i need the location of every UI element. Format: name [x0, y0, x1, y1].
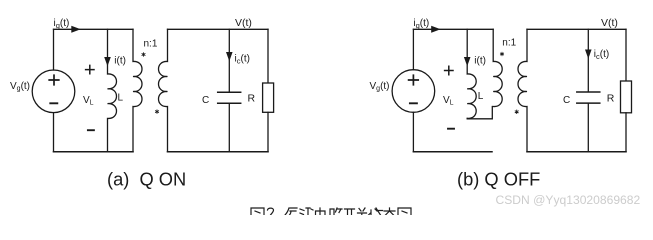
- arrow ic a: [226, 52, 233, 61]
- svg-text:R: R: [248, 93, 256, 105]
- arrow i(t) b: [464, 57, 471, 66]
- svg-text:(a) Q ON: (a) Q ON: [107, 169, 186, 190]
- wire bottom rail secondary b: [527, 151, 626, 153]
- transformer primary b: [493, 29, 502, 106]
- inductor L coil b: [467, 62, 476, 118]
- char tu2 top: [398, 208, 411, 215]
- wire top rail b: [413, 28, 493, 30]
- transformer secondary b: [518, 29, 527, 151]
- plus label VL a: [86, 65, 94, 73]
- wire top rail secondary b: [527, 28, 626, 30]
- wire bottom rail secondary a: [168, 151, 269, 153]
- svg-text:i(t): i(t): [114, 56, 126, 67]
- svg-text:R: R: [607, 93, 615, 105]
- char kai top: [345, 209, 355, 215]
- svg-text:n:1: n:1: [144, 39, 158, 50]
- wire L branch top a: [107, 29, 109, 62]
- char ji top: [300, 208, 313, 215]
- wire L branch top b: [466, 29, 468, 62]
- char tai top: [384, 208, 395, 215]
- dot marker secondary b: [515, 110, 518, 113]
- svg-text:ig(t): ig(t): [413, 18, 429, 30]
- svg-text:i(t): i(t): [474, 56, 486, 67]
- wire top rail a: [54, 28, 134, 30]
- wire top rail secondary a: [168, 28, 269, 30]
- svg-text:n:1: n:1: [502, 38, 516, 49]
- char guan top: [358, 208, 367, 215]
- svg-text:ig(t): ig(t): [54, 18, 70, 30]
- capacitor C a plates: [218, 92, 241, 103]
- svg-text:VL: VL: [443, 95, 454, 107]
- svg-text:CSDN @Yyq13020869682: CSDN @Yyq13020869682: [496, 193, 641, 207]
- source plus sign b: [409, 75, 419, 85]
- wire source top: [53, 29, 55, 70]
- wire L to primary bottom b: [467, 107, 492, 119]
- svg-text:(b) Q OFF: (b) Q OFF: [457, 169, 540, 190]
- dot marker primary a: [142, 53, 145, 56]
- arrow ig b: [431, 26, 440, 33]
- wire C branch bottom b: [587, 104, 589, 152]
- wire bottom rail a: [54, 151, 134, 153]
- minus label VL a: [88, 129, 94, 131]
- char lu top: [330, 208, 342, 215]
- arrow i(t) a: [104, 57, 111, 66]
- source plus sign: [49, 75, 59, 85]
- svg-text:L: L: [478, 91, 484, 102]
- source minus sign b: [410, 102, 417, 104]
- char fan top: [285, 208, 297, 215]
- wire source bottom b: [412, 112, 414, 151]
- resistor R b body: [621, 81, 632, 113]
- svg-text:C: C: [202, 95, 209, 106]
- svg-text:Vg(t): Vg(t): [10, 81, 30, 93]
- dot marker secondary a: [156, 110, 159, 113]
- voltage source Vg(t) circle: [32, 70, 75, 113]
- wire C branch top a: [228, 29, 230, 91]
- wire bottom rail b open end: [413, 151, 492, 153]
- char tu1 top: [251, 208, 264, 215]
- arrow ig a: [71, 26, 80, 33]
- dot marker primary b: [501, 52, 504, 55]
- wire source top b: [412, 29, 414, 69]
- transformer secondary a: [159, 29, 168, 151]
- arrow ic b: [585, 50, 592, 59]
- wire C branch top b: [587, 29, 589, 91]
- voltage source Vg(t) circle b: [392, 70, 435, 113]
- char 2 top: [268, 208, 274, 215]
- figure caption sliver (clipped chinese text tops): [251, 208, 411, 215]
- svg-text:V(t): V(t): [235, 17, 252, 29]
- svg-text:VL: VL: [83, 95, 94, 107]
- wire C branch bottom a: [228, 104, 230, 152]
- char zhuang top: [369, 208, 383, 215]
- source minus sign: [50, 102, 57, 104]
- wire R branch bottom a: [267, 112, 269, 151]
- minus label VL b: [448, 128, 454, 130]
- inductor L coil a: [108, 62, 117, 152]
- svg-text:V(t): V(t): [601, 17, 618, 29]
- svg-text:Vg(t): Vg(t): [370, 81, 390, 93]
- capacitor C b plates: [577, 92, 600, 103]
- resistor R a body: [263, 83, 274, 112]
- plus label VL b: [445, 66, 453, 74]
- transformer primary a: [133, 29, 142, 151]
- svg-text:ic(t): ic(t): [594, 49, 609, 61]
- char dian top: [316, 208, 326, 215]
- svg-text:C: C: [563, 95, 570, 106]
- svg-text:ic(t): ic(t): [235, 54, 250, 66]
- wire R branch top b: [625, 29, 627, 81]
- svg-text:L: L: [118, 93, 124, 104]
- wire R branch top a: [267, 29, 269, 83]
- wire R branch bottom b: [625, 113, 627, 152]
- wire source bottom: [53, 113, 55, 152]
